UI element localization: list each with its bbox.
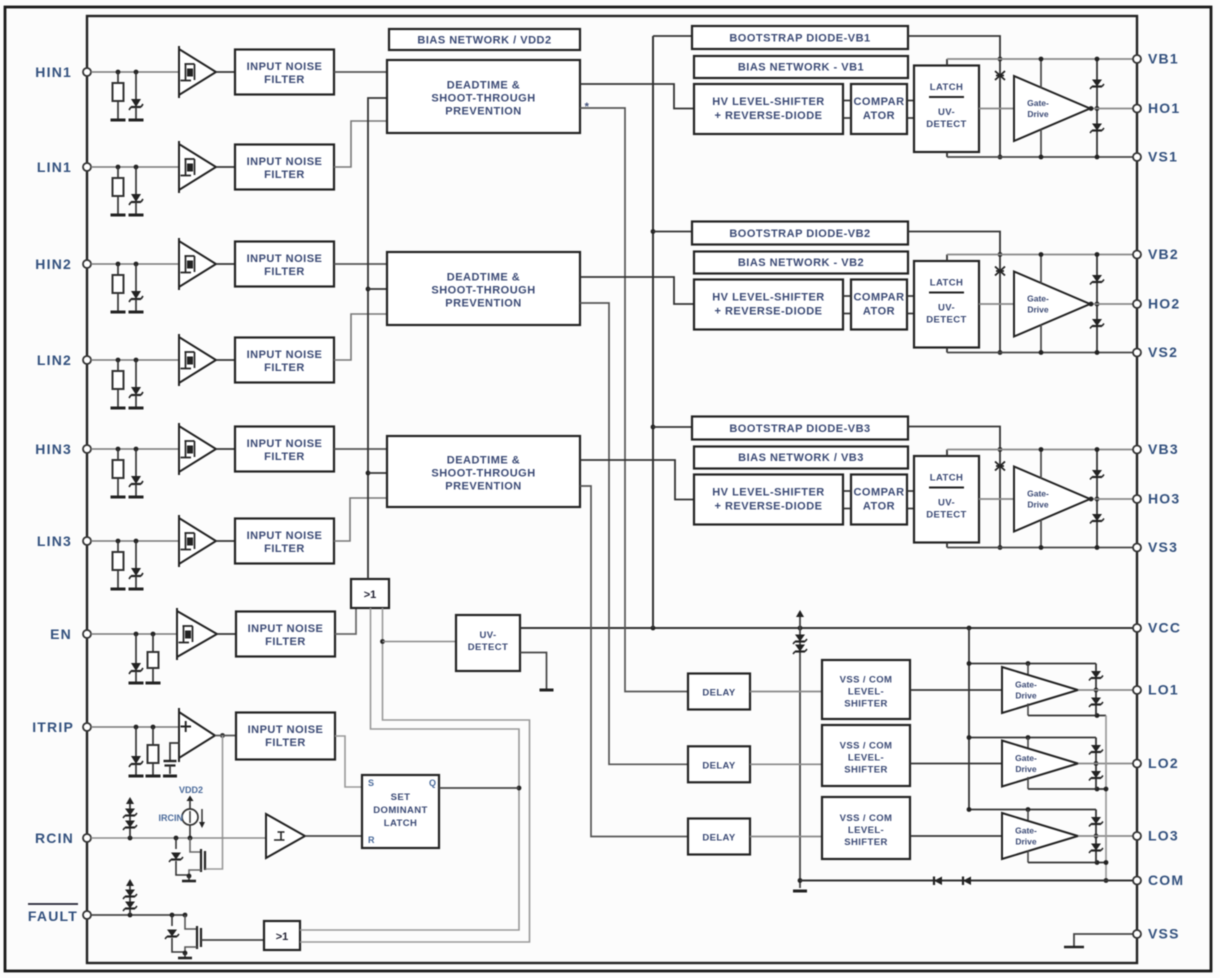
svg-text:HO1: HO1 bbox=[1148, 100, 1180, 116]
zener diode EN ESD bbox=[135, 634, 137, 663]
wire bootstrap3 out bbox=[908, 427, 1000, 450]
op-amp gate drive LO2 bbox=[1002, 741, 1078, 787]
node HO3 apex bbox=[1089, 497, 1094, 502]
wire LO1 top rail bbox=[969, 663, 1096, 665]
node VB2 c bbox=[1095, 252, 1100, 257]
block COMPARATOR 2 bbox=[851, 280, 907, 330]
op-amp gate drive HO2 bbox=[1014, 272, 1090, 337]
block VSS/COM LEVEL-SHIFTER 2 bbox=[822, 725, 910, 786]
svg-text:SHIFTER: SHIFTER bbox=[844, 837, 887, 848]
node EN D tap bbox=[134, 632, 139, 637]
wire IRCIN to RCIN node bbox=[189, 825, 191, 838]
block BOOTSTRAP DIODE-VB2 bbox=[692, 222, 908, 245]
node RCIN zener tap bbox=[174, 836, 179, 841]
node FAULT zener tap bbox=[170, 913, 175, 918]
wire HV to comparator 2 bbox=[843, 295, 851, 297]
svg-text:UV-: UV- bbox=[938, 303, 955, 314]
resistor LIN1 pulldown bbox=[117, 167, 119, 178]
pin LO2 bbox=[1133, 760, 1141, 768]
node VS3 b bbox=[1039, 545, 1044, 550]
node VB1 c bbox=[1095, 57, 1100, 62]
svg-text:Q: Q bbox=[429, 778, 436, 788]
block UV-DETECT bbox=[456, 615, 520, 671]
node bus bootstrap 2 bbox=[651, 229, 656, 234]
wire VB1 rail bbox=[947, 58, 1133, 60]
svg-text:Drive: Drive bbox=[1027, 109, 1049, 119]
wire latch2 bottom to VS rail bbox=[946, 348, 948, 353]
svg-text:PREVENTION: PREVENTION bbox=[445, 481, 522, 493]
zener diode VB1 clamp bbox=[995, 71, 1005, 80]
svg-text:VCC: VCC bbox=[1148, 620, 1181, 636]
svg-text:INPUT NOISE: INPUT NOISE bbox=[248, 623, 324, 635]
or gate OR2 bbox=[264, 921, 300, 950]
pin VB3 bbox=[1133, 446, 1141, 454]
transistor FAULT open-drain mosfet bbox=[183, 913, 188, 918]
wire bus to bootstrap 3 bbox=[653, 426, 692, 428]
block LATCH UV-DETECT 1 bbox=[914, 66, 979, 153]
op-amp gate drive LO1 bbox=[1002, 667, 1078, 713]
node VCC bus join bbox=[651, 626, 656, 631]
resistor LIN2 pulldown bbox=[117, 360, 119, 371]
wire LIN3 input bbox=[91, 540, 179, 542]
zener stack FAULT clamp bbox=[129, 884, 131, 915]
block HV LEVEL-SHIFTER 3 bbox=[694, 475, 843, 525]
node LO1 out bbox=[1094, 688, 1099, 693]
wire shifter2 to gate drive bbox=[910, 763, 1002, 765]
wire gate drive2 bottom supply bbox=[1040, 325, 1042, 353]
wire DT2 low out to DELAY2 bbox=[580, 303, 688, 764]
svg-text:HV LEVEL-SHIFTER: HV LEVEL-SHIFTER bbox=[712, 292, 825, 304]
svg-text:S: S bbox=[368, 778, 374, 788]
zener diode VB2 clamp bbox=[995, 267, 1005, 276]
node VB3 a bbox=[998, 447, 1003, 452]
schmitt buffer LIN3 bbox=[179, 518, 216, 564]
wire latch1 top to VB rail bbox=[946, 59, 948, 66]
svg-text:COMPAR: COMPAR bbox=[853, 487, 904, 499]
wire LO1 drive top supply bbox=[1027, 664, 1029, 676]
wire LO3 bottom rail bbox=[1028, 862, 1106, 864]
svg-text:INPUT NOISE: INPUT NOISE bbox=[247, 438, 323, 450]
wire RCIN buffer to latch R bbox=[305, 835, 362, 837]
pin VS3 bbox=[1133, 544, 1141, 552]
wire HV to comparator 3 bbox=[843, 490, 851, 492]
block COMPARATOR 1 bbox=[851, 84, 907, 134]
svg-text:Drive: Drive bbox=[1027, 500, 1049, 510]
node LIN3 D tap bbox=[134, 539, 139, 544]
wire ITRIP input bbox=[91, 726, 178, 728]
schmitt buffer EN bbox=[177, 611, 217, 657]
wire LO1 line bbox=[1078, 689, 1133, 691]
block HV LEVEL-SHIFTER 1 bbox=[694, 84, 843, 134]
node VB2 a bbox=[998, 252, 1003, 257]
svg-text:VS1: VS1 bbox=[1148, 149, 1178, 165]
wire DELAY2 to level shifter bbox=[750, 763, 822, 765]
op-amp gate drive LO3 bbox=[1002, 813, 1078, 859]
block DEADTIME DT1 bbox=[387, 60, 580, 133]
svg-text:IRCIN: IRCIN bbox=[159, 813, 184, 823]
node HO1 c bbox=[1095, 106, 1100, 111]
wire OR1 output to DT boxes bbox=[368, 98, 387, 579]
node HO1 apex bbox=[1089, 106, 1094, 111]
wire VS2 rail bbox=[947, 352, 1133, 354]
block BIAS NETWORK VB1 bbox=[694, 56, 908, 78]
node LO1 rail b bbox=[1026, 661, 1031, 666]
svg-text:LO1: LO1 bbox=[1148, 682, 1179, 698]
wire LIN2 input bbox=[91, 359, 179, 361]
node LIN1 R tap bbox=[116, 165, 121, 170]
svg-text:FILTER: FILTER bbox=[264, 451, 305, 463]
wire latch3 top to VB rail bbox=[946, 450, 948, 457]
schmitt buffer HIN2 bbox=[179, 241, 216, 287]
svg-text:DELAY: DELAY bbox=[702, 760, 736, 771]
ground FAULT mosfet bbox=[184, 953, 186, 957]
zener diode RCIN body bbox=[175, 838, 177, 849]
wire LO3 line bbox=[1078, 835, 1133, 837]
svg-text:COMPAR: COMPAR bbox=[853, 96, 904, 108]
node VCC LO join bbox=[967, 626, 972, 631]
svg-text:UV-: UV- bbox=[938, 107, 955, 118]
schmitt buffer HIN1 bbox=[179, 49, 216, 95]
wire latch1 bottom to VS rail bbox=[946, 152, 948, 157]
node VB3 c bbox=[1095, 447, 1100, 452]
wire HIN3 input bbox=[91, 448, 179, 450]
node LO3 rail a bbox=[967, 807, 972, 812]
wire LIN2 filter to DT2 bbox=[334, 314, 387, 360]
node LO3 rail b bbox=[1026, 807, 1031, 812]
transistor HO2 pull-up bbox=[1092, 275, 1102, 282]
zener diode HIN3 ESD bbox=[135, 449, 137, 476]
svg-text:BIAS NETWORK / VDD2: BIAS NETWORK / VDD2 bbox=[417, 35, 551, 47]
wire VB3 clamp vertical bbox=[999, 450, 1001, 548]
node ITRIP D tap bbox=[134, 725, 139, 730]
block DELAY3 bbox=[688, 819, 750, 855]
block VSS/COM LEVEL-SHIFTER 1 bbox=[822, 660, 910, 719]
wire UV fault to OR1 bbox=[383, 641, 457, 643]
node VB1 b bbox=[1039, 57, 1044, 62]
svg-text:VS3: VS3 bbox=[1148, 539, 1178, 555]
svg-text:LEVEL-: LEVEL- bbox=[848, 753, 884, 764]
svg-text:R: R bbox=[368, 835, 375, 845]
svg-text:INPUT NOISE: INPUT NOISE bbox=[247, 349, 323, 361]
node RCIN mosfet drain bbox=[188, 836, 193, 841]
transistor LO3 pull-up bbox=[1091, 817, 1101, 824]
wire DT1 low out to DELAY1 bbox=[580, 108, 688, 692]
svg-text:DETECT: DETECT bbox=[926, 119, 966, 130]
wire DT2 high out bbox=[580, 277, 694, 304]
wire LIN3 filter to DT3 bbox=[334, 498, 387, 541]
wire LO1 drive bottom supply bbox=[1027, 704, 1029, 716]
svg-text:INPUT NOISE: INPUT NOISE bbox=[247, 253, 323, 265]
wire HV to comparator 1 bbox=[843, 100, 851, 102]
wire gate drive1 bottom supply bbox=[1040, 129, 1042, 157]
wire LO1 mos leg bbox=[1095, 664, 1097, 716]
node RCIN source bbox=[187, 874, 192, 879]
svg-text:BOOTSTRAP DIODE-VB3: BOOTSTRAP DIODE-VB3 bbox=[729, 423, 870, 435]
svg-text:LIN1: LIN1 bbox=[37, 159, 72, 175]
ground ITRIP reference bbox=[163, 775, 177, 778]
block BIAS NETWORK VB3 bbox=[694, 447, 908, 469]
pin VSS bbox=[1133, 930, 1141, 938]
current source IRCIN bbox=[187, 796, 194, 802]
wire HO2 output mos leg bbox=[1096, 255, 1098, 353]
svg-text:HIN3: HIN3 bbox=[35, 441, 72, 457]
block DELAY1 bbox=[688, 674, 750, 710]
svg-text:Gate-: Gate- bbox=[1027, 489, 1049, 499]
wire HIN1 input bbox=[91, 71, 179, 73]
zener diode HIN2 ESD bbox=[135, 264, 137, 291]
node VB2 b bbox=[1039, 252, 1044, 257]
svg-text:SHOOT-THROUGH: SHOOT-THROUGH bbox=[431, 93, 535, 105]
svg-text:LATCH: LATCH bbox=[930, 278, 963, 289]
node LO3 bot a bbox=[1095, 860, 1100, 865]
block SET DOMINANT LATCH bbox=[362, 775, 439, 848]
svg-text:FILTER: FILTER bbox=[264, 362, 305, 374]
svg-text:FILTER: FILTER bbox=[265, 636, 306, 648]
block BOOTSTRAP DIODE-VB1 bbox=[692, 26, 908, 49]
svg-text:ATOR: ATOR bbox=[863, 501, 895, 513]
node ITRIP comparator out bbox=[220, 733, 225, 738]
svg-text:FAULT: FAULT bbox=[28, 908, 78, 924]
wire DELAY3 to level shifter bbox=[750, 836, 822, 838]
node VB3 b bbox=[1039, 447, 1044, 452]
wire ITRIP comparator out bbox=[215, 735, 236, 737]
wire EN input bbox=[91, 633, 177, 635]
zener diode LIN1 ESD bbox=[135, 167, 137, 194]
transistor HO2 pull-down bbox=[1092, 319, 1102, 326]
node VS1 b bbox=[1039, 155, 1044, 160]
wire OR1 to DT3 bbox=[368, 472, 387, 474]
svg-text:DETECT: DETECT bbox=[926, 510, 966, 521]
wire LO2 line bbox=[1078, 763, 1133, 765]
zener diode FAULT body bbox=[171, 915, 173, 926]
node HIN2 D tap bbox=[134, 262, 139, 267]
svg-text:INPUT NOISE: INPUT NOISE bbox=[247, 530, 323, 542]
transistor HO1 pull-up bbox=[1092, 80, 1102, 87]
svg-text:DETECT: DETECT bbox=[468, 642, 508, 653]
block LATCH UV-DETECT 2 bbox=[914, 261, 979, 348]
node DT2 disable branch bbox=[366, 287, 371, 292]
pin VS1 bbox=[1133, 153, 1141, 161]
svg-text:DELAY: DELAY bbox=[702, 688, 736, 699]
svg-text:SHOOT-THROUGH: SHOOT-THROUGH bbox=[431, 468, 535, 480]
zener clamp VCC to COM bbox=[799, 616, 801, 888]
svg-text:>1: >1 bbox=[276, 931, 289, 943]
svg-text:DELAY: DELAY bbox=[702, 833, 736, 844]
wire bootstrap1 out bbox=[908, 36, 1000, 59]
wire comparator to latch 2 bbox=[907, 295, 914, 297]
schmitt buffer LIN1 bbox=[179, 144, 216, 190]
svg-text:HIN2: HIN2 bbox=[35, 256, 72, 272]
wire gate drive3 top supply bbox=[1040, 450, 1042, 479]
node VS3 a bbox=[998, 545, 1003, 550]
wire latch1 to gate drive bbox=[979, 108, 1014, 110]
svg-text:HV LEVEL-SHIFTER: HV LEVEL-SHIFTER bbox=[712, 96, 825, 108]
pin HO2 bbox=[1133, 300, 1141, 308]
svg-text:Drive: Drive bbox=[1015, 764, 1037, 774]
wire gate drive2 top supply bbox=[1040, 255, 1042, 284]
svg-text:Gate-: Gate- bbox=[1027, 294, 1049, 304]
transistor LO2 pull-down bbox=[1091, 771, 1101, 778]
svg-text:VB1: VB1 bbox=[1148, 51, 1179, 67]
wire fault feedback A (latch Q to OR1/OR2) bbox=[300, 608, 519, 930]
wire HO1 output mos leg bbox=[1096, 59, 1098, 157]
wire EN filter to OR1 bbox=[335, 608, 356, 634]
wire HIN2 input bbox=[91, 263, 179, 265]
svg-text:Gate-: Gate- bbox=[1027, 98, 1049, 108]
wire VB2 rail bbox=[947, 254, 1133, 256]
wire LO2 top rail bbox=[969, 737, 1096, 739]
wire HIN1 filter to DT1 bbox=[334, 71, 387, 73]
wire HO1 line bbox=[1090, 108, 1133, 110]
svg-text:LATCH: LATCH bbox=[384, 818, 417, 829]
node LO3 out bbox=[1094, 834, 1099, 839]
svg-text:+ REVERSE-DIODE: + REVERSE-DIODE bbox=[714, 306, 822, 318]
wire LO3 top rail bbox=[969, 809, 1096, 811]
wire HIN3 buffer out bbox=[216, 448, 235, 450]
wire LO2 drive top supply bbox=[1027, 738, 1029, 750]
block LATCH UV-DETECT 3 bbox=[914, 456, 979, 543]
svg-text:VB2: VB2 bbox=[1148, 246, 1179, 262]
node VS1 c bbox=[1095, 155, 1100, 160]
node LO2 rail b bbox=[1026, 735, 1031, 740]
node HIN2 R tap bbox=[116, 262, 121, 267]
node HIN3 R tap bbox=[116, 447, 121, 452]
transistor LO3 pull-down bbox=[1091, 844, 1101, 851]
block INPUT NOISE FILTER HIN2 bbox=[235, 242, 334, 287]
node UV fault branch bbox=[380, 639, 385, 644]
wire HO2 line bbox=[1090, 303, 1133, 305]
node LIN3 R tap bbox=[116, 539, 121, 544]
pin VB1 bbox=[1133, 55, 1141, 63]
wire VCC rail bbox=[520, 627, 1133, 629]
svg-text:VS2: VS2 bbox=[1148, 344, 1178, 360]
svg-text:VB3: VB3 bbox=[1148, 441, 1179, 457]
wire comparator to latch 3 bbox=[907, 490, 914, 492]
wire OR1 to DT2 bbox=[368, 288, 387, 290]
svg-text:EN: EN bbox=[50, 626, 72, 642]
wire COM return vertical bbox=[1105, 716, 1107, 881]
svg-text:DEADTIME &: DEADTIME & bbox=[447, 455, 520, 467]
ground RCIN mosfet bbox=[188, 876, 190, 880]
wire LIN3 buffer out bbox=[216, 540, 235, 542]
block VSS/COM LEVEL-SHIFTER 3 bbox=[822, 797, 910, 859]
wire DT3 low out to DELAY3 bbox=[580, 486, 688, 837]
node VCC clamp join bbox=[798, 626, 803, 631]
node LO2 bot a bbox=[1095, 787, 1100, 792]
svg-text:COMPAR: COMPAR bbox=[853, 292, 904, 304]
block BIAS NETWORK / VDD2 bbox=[389, 29, 580, 50]
transistor RCIN discharge mosfet bbox=[190, 838, 201, 852]
svg-text:HIN1: HIN1 bbox=[35, 64, 72, 80]
svg-text:LIN2: LIN2 bbox=[37, 352, 72, 368]
block DEADTIME DT3 bbox=[387, 436, 580, 507]
zener diode ITRIP ESD bbox=[135, 727, 137, 756]
wire LIN2 buffer out bbox=[216, 359, 235, 361]
wire LIN1 buffer out bbox=[216, 166, 235, 168]
node HIN3 D tap bbox=[134, 447, 139, 452]
wire VB1 clamp vertical bbox=[999, 59, 1001, 157]
node LO2 out bbox=[1094, 761, 1099, 766]
svg-text:INPUT NOISE: INPUT NOISE bbox=[248, 724, 324, 736]
resistor HIN1 pulldown bbox=[117, 72, 119, 83]
svg-text:DOMINANT: DOMINANT bbox=[373, 805, 427, 816]
node VS1 a bbox=[998, 155, 1003, 160]
wire shifter1 to gate drive bbox=[910, 689, 1002, 691]
resistor EN pulldown bbox=[152, 634, 154, 652]
wire LO3 drive bottom supply bbox=[1027, 851, 1029, 863]
svg-text:SHIFTER: SHIFTER bbox=[844, 699, 887, 710]
wire bus to bootstrap 2 bbox=[653, 231, 692, 233]
svg-text:>1: >1 bbox=[364, 589, 377, 601]
svg-text:ATOR: ATOR bbox=[863, 110, 895, 122]
schmitt buffer HIN3 bbox=[179, 426, 216, 472]
block BOOTSTRAP DIODE-VB3 bbox=[692, 417, 908, 440]
node HIN1 R tap bbox=[116, 70, 121, 75]
wire LIN1 filter to DT1 bbox=[334, 121, 387, 167]
block INPUT NOISE FILTER HIN1 bbox=[235, 50, 334, 95]
block INPUT NOISE FILTER LIN1 bbox=[235, 145, 334, 190]
svg-text:Drive: Drive bbox=[1015, 691, 1037, 701]
block INPUT NOISE FILTER HIN3 bbox=[235, 427, 334, 472]
wire ITRIP filter to latch S bbox=[335, 736, 362, 787]
block INPUT NOISE FILTER ITRIP bbox=[236, 713, 335, 760]
svg-text:SHIFTER: SHIFTER bbox=[844, 765, 887, 776]
node VB1 a bbox=[998, 57, 1003, 62]
svg-text:INPUT NOISE: INPUT NOISE bbox=[247, 61, 323, 73]
svg-text:PREVENTION: PREVENTION bbox=[445, 106, 522, 118]
svg-text:HO3: HO3 bbox=[1148, 491, 1180, 507]
node DT3 disable branch bbox=[366, 471, 371, 476]
wire FAULT input bbox=[91, 914, 185, 916]
svg-text:*: * bbox=[585, 101, 590, 113]
wire EN buffer out bbox=[217, 633, 236, 635]
svg-text:VSS / COM: VSS / COM bbox=[840, 675, 893, 686]
svg-text:LEVEL-: LEVEL- bbox=[848, 825, 884, 836]
svg-text:BIAS NETWORK - VB2: BIAS NETWORK - VB2 bbox=[738, 257, 864, 269]
svg-text:LO3: LO3 bbox=[1148, 828, 1179, 844]
node VS2 b bbox=[1039, 350, 1044, 355]
wire LO3 mos leg bbox=[1095, 810, 1097, 863]
wire HIN2 buffer out bbox=[216, 263, 235, 265]
transistor HO1 pull-down bbox=[1092, 124, 1102, 131]
diode COM clamp 2 bbox=[963, 877, 971, 886]
svg-text:FILTER: FILTER bbox=[264, 169, 305, 181]
ground clamp leg bbox=[793, 890, 807, 893]
wire HIN1 buffer out bbox=[216, 71, 235, 73]
comparator ITRIP bbox=[179, 712, 215, 758]
svg-text:Drive: Drive bbox=[1015, 837, 1037, 847]
op-amp gate drive HO1 bbox=[1014, 76, 1090, 141]
node LIN2 D tap bbox=[134, 358, 139, 363]
transistor LO1 pull-down bbox=[1091, 698, 1101, 705]
node VS2 a bbox=[998, 350, 1003, 355]
node HO3 c bbox=[1095, 497, 1100, 502]
svg-text:LATCH: LATCH bbox=[930, 473, 963, 484]
wire VS3 rail bbox=[947, 547, 1133, 549]
op-amp gate drive HO3 bbox=[1014, 467, 1090, 532]
svg-text:BOOTSTRAP DIODE-VB2: BOOTSTRAP DIODE-VB2 bbox=[729, 228, 870, 240]
svg-text:ITRIP: ITRIP bbox=[32, 719, 74, 735]
node LIN1 D tap bbox=[134, 165, 139, 170]
svg-text:BOOTSTRAP DIODE-VB1: BOOTSTRAP DIODE-VB1 bbox=[729, 33, 870, 45]
svg-text:LATCH: LATCH bbox=[930, 82, 963, 93]
wire LO1 bottom rail bbox=[1028, 715, 1106, 717]
wire LO2 drive bottom supply bbox=[1027, 777, 1029, 789]
wire LO2 mos leg bbox=[1095, 738, 1097, 790]
svg-text:ATOR: ATOR bbox=[863, 306, 895, 318]
wire bus to bootstrap 1 bbox=[653, 35, 692, 37]
svg-text:FILTER: FILTER bbox=[264, 74, 305, 86]
